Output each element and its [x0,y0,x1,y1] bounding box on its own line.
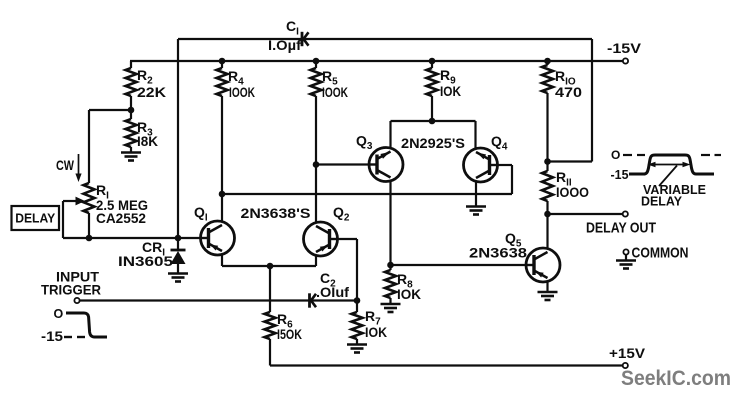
svg-text:2N3638: 2N3638 [469,245,527,261]
svg-text:-15: -15 [611,168,629,182]
svg-text:O: O [54,307,64,321]
svg-text:CA2552: CA2552 [96,210,146,226]
svg-text:CW: CW [56,158,74,173]
svg-text:470: 470 [555,84,582,100]
svg-text:IN3605: IN3605 [118,253,173,269]
svg-text:DELAY: DELAY [15,212,56,226]
svg-text:IOK: IOK [365,324,387,340]
svg-text:2N2925'S: 2N2925'S [401,135,465,151]
svg-text:IOK: IOK [440,83,461,99]
svg-text:TRIGGER: TRIGGER [41,282,101,298]
svg-text:COMMON: COMMON [632,245,689,262]
svg-text:-15V: -15V [607,40,642,56]
svg-text:IOOK: IOOK [322,84,348,100]
svg-text:.OIuf: .OIuf [316,284,349,300]
svg-text:I8K: I8K [137,133,158,149]
svg-text:DELAY OUT: DELAY OUT [586,220,656,237]
svg-text:I.Oµf: I.Oµf [268,37,301,53]
svg-text:22K: 22K [137,84,166,100]
svg-text:IOK: IOK [397,286,421,302]
svg-text:O: O [611,148,620,162]
svg-text:-15: -15 [41,329,64,344]
svg-text:I5OK: I5OK [277,326,302,342]
svg-text:+15V: +15V [609,345,646,361]
svg-text:2N3638'S: 2N3638'S [241,205,311,221]
svg-text:SeekIC.com: SeekIC.com [621,367,731,390]
svg-text:DELAY: DELAY [641,194,682,209]
svg-text:IOOO: IOOO [556,184,589,200]
svg-text:IOOK: IOOK [229,84,255,100]
